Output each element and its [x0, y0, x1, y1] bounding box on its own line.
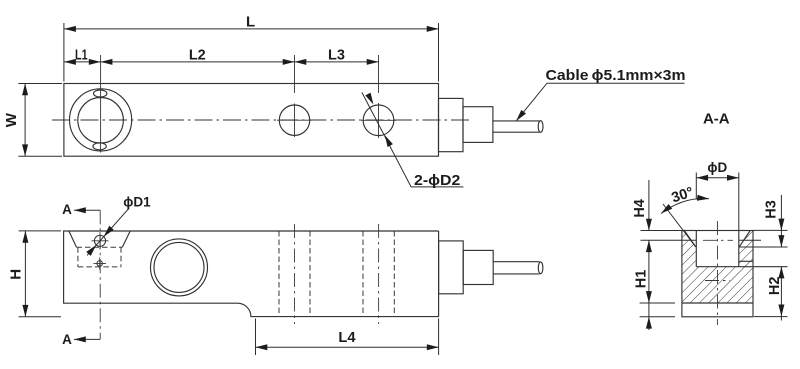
hidden hole 3 edges (dashed)	[363, 231, 394, 317]
right chamfer bottom line + H3 extension	[739, 246, 788, 248]
dimension L1 L2 L3 line	[64, 61, 378, 63]
svg-text:L4: L4	[338, 329, 356, 346]
connector block 1 (side view)	[439, 241, 464, 294]
top edge extensions left and right	[641, 229, 788, 231]
arrow 30deg arc right	[697, 195, 709, 202]
cable end cap (top view)	[538, 121, 543, 133]
hole 3 centerline (side view)	[378, 224, 380, 324]
pocket horizontal centerline	[703, 239, 733, 241]
svg-text:H1: H1	[634, 270, 650, 289]
section line A-A (dash-dot vertical)	[99, 210, 101, 339]
arrow phiD1 upper	[101, 226, 113, 239]
30 degree arc	[661, 199, 709, 214]
dimension H line	[24, 231, 26, 317]
cable callout underline + leader	[516, 83, 684, 121]
H3 dimension line	[780, 195, 782, 247]
dimension L4 line	[256, 346, 439, 348]
arrow H3 down outer	[778, 219, 784, 231]
H2 dimension line	[780, 267, 782, 321]
arrow H1 down	[646, 291, 652, 303]
svg-text:A-A: A-A	[703, 111, 730, 128]
svg-text:2-ϕD2: 2-ϕD2	[414, 172, 460, 189]
arrow L2 left	[101, 59, 113, 65]
large tool hole outer circle (side view)	[151, 239, 208, 296]
arrow H2 up	[778, 267, 784, 279]
section horizontal center dash	[705, 280, 730, 282]
svg-text:H: H	[8, 269, 25, 280]
svg-text:L1: L1	[75, 46, 88, 63]
arrow L right	[427, 26, 439, 32]
section outer rectangle	[682, 231, 753, 317]
hole 2 circle	[279, 105, 309, 135]
arrow L3 left	[295, 59, 307, 65]
svg-text:Cable ϕ5.1mm×3m: Cable ϕ5.1mm×3m	[546, 67, 686, 84]
hole 2 crosshairs	[277, 55, 312, 137]
svg-text:ϕD1: ϕD1	[123, 194, 151, 209]
chamfer left	[684, 231, 696, 247]
section vertical centerline	[717, 221, 719, 325]
chamfer right + 30 deg extension	[739, 231, 750, 247]
flange slot top	[94, 90, 107, 97]
pocket left wall	[695, 231, 697, 267]
strip line left extension	[640, 302, 675, 304]
hole 3 circle	[363, 105, 394, 136]
right wall step line	[739, 260, 753, 262]
L4 extension lines	[256, 319, 439, 356]
dimension L line	[64, 28, 438, 30]
W extension lines	[18, 84, 62, 157]
svg-text:A: A	[62, 202, 72, 217]
bottom strip line	[682, 302, 753, 304]
beam body (top view)	[64, 84, 439, 157]
arrow L3 right	[367, 59, 379, 65]
pocket funnel left slant	[69, 231, 77, 247]
connector block 2 (top view)	[463, 107, 493, 143]
hole 3 crosshairs	[361, 55, 396, 138]
svg-text:L2: L2	[189, 46, 206, 63]
svg-text:L: L	[246, 14, 255, 31]
arrow L4 right	[427, 344, 439, 350]
phiD1 circle crosshair	[92, 232, 109, 250]
hidden pocket rectangle (dashed)	[77, 247, 123, 267]
arrow H4 down	[646, 219, 652, 231]
H4 feature line left + through walls	[641, 239, 762, 241]
svg-text:ϕD: ϕD	[707, 160, 727, 175]
svg-text:H4: H4	[632, 199, 648, 218]
arrow H2 down	[778, 305, 784, 317]
phiD dimension line	[696, 177, 739, 179]
arrow L2 right	[283, 59, 295, 65]
dimension W line	[24, 84, 26, 157]
arrow H4/H1 up	[646, 240, 652, 252]
hidden hole 2 edges (dashed)	[279, 231, 310, 317]
H4 dimension line	[648, 180, 650, 330]
flange slot bottom	[93, 143, 106, 150]
arrow L left	[64, 26, 76, 32]
arrow bottom strip up	[646, 317, 652, 329]
phiD1 gauge circle	[94, 235, 105, 246]
pocket floor + right extension	[696, 266, 787, 268]
arrow L1 right	[89, 59, 101, 65]
svg-text:H2: H2	[767, 277, 783, 296]
L extension lines	[64, 23, 439, 82]
connector block 2 (side view)	[463, 250, 493, 284]
arrow H3 down inner	[778, 235, 784, 247]
arrow W bottom	[22, 144, 28, 156]
svg-text:L3: L3	[328, 46, 345, 63]
arrow L1 left	[64, 59, 76, 65]
arrow phiD right	[727, 175, 739, 181]
small center mark crosshair	[94, 258, 107, 270]
connector block 1 (top view)	[439, 98, 464, 151]
cable end cap (side view)	[538, 262, 543, 274]
arrow 2-phiD2 lower	[382, 134, 393, 147]
phiD1 leader line	[87, 209, 129, 256]
arrow cable leader	[514, 110, 526, 123]
arrow phiD1 lower	[86, 243, 98, 256]
svg-text:30°: 30°	[670, 184, 696, 206]
arrow H top	[22, 231, 28, 243]
section marker top line	[74, 209, 100, 211]
svg-text:W: W	[3, 112, 20, 127]
hole 2 centerline (side view)	[294, 224, 296, 324]
bottom edge left extension	[640, 316, 675, 318]
small center mark circle	[97, 261, 103, 267]
hatched cross-section body	[682, 231, 753, 304]
H extension lines	[19, 231, 61, 317]
beam profile (side view)	[64, 231, 439, 317]
bottom-right extension	[754, 316, 788, 318]
pocket right wall	[738, 231, 740, 267]
arrow 2-phiD2 upper	[365, 93, 376, 106]
hole 1 vertical crosshair / extension	[100, 55, 102, 153]
chamfer extended construction line (30 deg)	[663, 204, 696, 247]
cable (top view)	[493, 121, 540, 132]
arrow section A top	[74, 207, 86, 213]
arrow phiD left	[696, 175, 708, 181]
arrow W top	[22, 84, 28, 96]
large tool hole inner circle (side view)	[154, 242, 204, 292]
arrow L4 left	[256, 344, 268, 350]
pocket funnel right slant	[122, 231, 130, 247]
arrow section A bottom	[74, 336, 86, 342]
arrow H bottom	[22, 305, 28, 317]
svg-text:H3: H3	[764, 200, 780, 219]
2-phiD2 leader line	[362, 92, 464, 186]
phiD extension lines	[696, 173, 739, 231]
section marker bottom line	[74, 338, 100, 340]
arrow 30deg arc left	[659, 204, 672, 216]
centerline of beam (top view)	[52, 119, 472, 121]
mounting hole H1 outer flange circle	[70, 89, 132, 151]
mounting hole H1 inner circle	[78, 98, 124, 144]
cable (side view)	[493, 262, 539, 274]
svg-text:A: A	[62, 332, 72, 347]
